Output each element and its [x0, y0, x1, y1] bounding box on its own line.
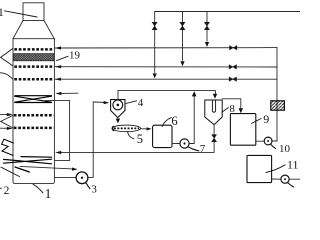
wire: pump 7 outlet riser: [189, 96, 194, 143]
lower tray (zigzag, liquid zone): [4, 157, 52, 172]
tank 6: [153, 125, 172, 147]
valve V1 on pipe 1: [230, 46, 237, 50]
svg-text:4: 4: [138, 97, 144, 109]
wire: tank 6 to pump 7: [172, 142, 180, 144]
svg-text:9: 9: [263, 112, 269, 126]
wire: funnel 8 overflow to tank 9: [222, 99, 241, 109]
wire: tower outlet arrow above pump 3: [20, 166, 73, 169]
leader to label 1 (bottom): [33, 184, 43, 193]
wire: pump 4 top stub: [117, 91, 119, 100]
pump 10: [264, 137, 272, 145]
vacuum belt filter 5: [112, 125, 140, 132]
valve on riser A: [152, 22, 157, 30]
arrow into tank 9: [239, 108, 243, 113]
valve on riser C: [204, 22, 209, 30]
arrow down into funnel 8: [213, 94, 217, 99]
wire: pump 10 outlet to main riser: [272, 140, 277, 142]
pump 12 (bottom right): [281, 175, 289, 183]
demister dashed band 1: [14, 48, 53, 51]
wire: left feed into band 5: [0, 127, 7, 129]
leader to label 2: [1, 167, 20, 176]
pipe 1 (top spray feed): [55, 47, 277, 49]
tank 11: [247, 155, 272, 182]
arrow riser A onto pipe 3: [153, 73, 157, 78]
wire: tower bottom outlet to pump 3: [54, 176, 76, 178]
wire: riser B to pipe 2: [182, 12, 184, 61]
demister dashed band 2: [14, 65, 53, 68]
tower shell walls: [13, 39, 54, 184]
svg-text:1: 1: [45, 186, 52, 200]
spray dashed band 4: [14, 114, 54, 117]
wire: pump 3 outlet: [88, 176, 93, 178]
label 19 leader: [57, 56, 69, 60]
valve V3 on pipe 3: [229, 77, 236, 81]
wire: tank 11 to pump 11: [272, 178, 281, 180]
pipe 2: [55, 66, 277, 68]
pump/cyclone 4: [111, 100, 125, 118]
wire: transfer line to funnel 8: [118, 91, 215, 95]
svg-text:3: 3: [91, 184, 97, 196]
arrow riser C onto pipe 1: [205, 42, 209, 47]
svg-text:11: 11: [287, 157, 299, 171]
label 4 leader: [126, 101, 137, 104]
svg-text:7: 7: [200, 143, 206, 155]
packing layer 19 (cross-hatched bed): [14, 54, 54, 61]
arrow into pump 4: [104, 101, 110, 104]
valve V2 on pipe 2: [229, 65, 236, 69]
wire: riser pump3 to pump4: [93, 102, 104, 177]
svg-text:2: 2: [4, 185, 10, 197]
wire: riser A to pipe 3: [154, 12, 156, 73]
wire: top make-up manifold: [155, 11, 300, 13]
valve on drain line: [212, 135, 217, 142]
label 9 leader: [252, 119, 262, 124]
pump 7: [180, 139, 189, 148]
arrow pump 7 riser up onto transfer line: [192, 91, 197, 96]
inline filter (hatched block): [271, 101, 285, 110]
arrow riser B onto pipe 2: [180, 61, 184, 66]
arrow into tower pipe 2: [55, 65, 61, 68]
wire: recirculation main riser: [276, 48, 278, 141]
pipe 3: [55, 78, 277, 80]
label 5 leader: [128, 132, 134, 139]
svg-text:19: 19: [69, 50, 81, 62]
label 11 leader: [266, 165, 285, 173]
arrow into tower (y=93): [55, 92, 61, 95]
valve on riser B: [180, 22, 185, 30]
wire: funnel 8 drain: [58, 124, 214, 152]
spray dashed band 5: [14, 127, 54, 130]
wire: pump 12 outlet to edge: [289, 178, 300, 180]
wire: short return into tower (y=93): [61, 92, 79, 94]
tower top plate: [13, 38, 54, 40]
label 1 (top) leader: [5, 11, 38, 17]
chimney outlet (tower top): [23, 3, 44, 21]
arrow into tower pipe 1: [55, 46, 61, 49]
svg-text:1: 1: [0, 5, 4, 19]
pump 3: [76, 172, 88, 184]
wire: left feed into band 4: [0, 113, 7, 115]
label 6 leader: [162, 117, 171, 126]
hydrocyclone 8: [205, 100, 222, 124]
tank 9: [230, 114, 255, 146]
leader chevron to bands 1,2: [1, 49, 13, 66]
arrow drain into tower: [55, 151, 61, 154]
upper collecting tray (zigzag): [15, 96, 52, 103]
arrow into tower pipe 3: [55, 78, 61, 81]
leader chevron to bands 4,5: [1, 116, 13, 128]
svg-text:8: 8: [229, 103, 235, 115]
transition cone (trapezoid): [13, 21, 54, 39]
svg-text:6: 6: [171, 114, 177, 128]
leader to band 3: [0, 73, 13, 79]
demister dashed band 3: [14, 78, 53, 81]
heater zigzag symbol 2 (left wall): [2, 139, 14, 155]
svg-text:10: 10: [279, 143, 291, 155]
svg-text:5: 5: [137, 132, 143, 146]
label 8 leader: [222, 108, 229, 113]
arrow tray 5 to box 6: [141, 128, 147, 130]
wire: external downcomer: [45, 101, 70, 161]
wire: tank 9 to pump 10: [256, 140, 264, 142]
wire: riser C to pipe 1: [206, 12, 208, 42]
arrow from pump 4 down to tray 5: [117, 118, 119, 120]
